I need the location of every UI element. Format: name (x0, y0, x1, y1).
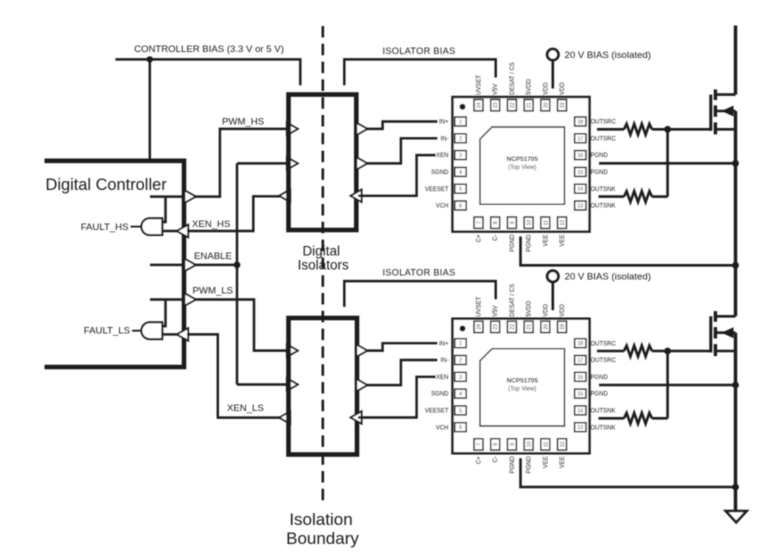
wire XEN_HS (187, 196, 280, 231)
wire fault_ls stub (132, 330, 141, 332)
channel 2 (low side) (344, 268, 739, 491)
svg-text:Isolation: Isolation (289, 510, 352, 529)
wire PWM_HS stub (150, 195, 182, 197)
svg-text:FAULT_HS: FAULT_HS (81, 222, 129, 233)
wire fault_hs stub (131, 226, 142, 228)
svg-text:CONTROLLER BIAS (3.3 V or 5 V): CONTROLLER BIAS (3.3 V or 5 V) (134, 44, 284, 55)
arrow PWM_LS into isolator 2 (287, 344, 298, 356)
arrow XEN_HS into controller (177, 225, 188, 238)
svg-text:ENABLE: ENABLE (194, 251, 232, 262)
wire ENABLE vertical (236, 163, 238, 384)
channel 1 (high side) (344, 46, 739, 269)
digital isolator box 2 (289, 318, 358, 455)
svg-text:PWM_HS: PWM_HS (222, 116, 264, 127)
controller bias line (115, 59, 300, 85)
arrow XEN_LS into controller (177, 328, 188, 341)
junction ENABLE (234, 262, 241, 269)
svg-text:XEN_LS: XEN_LS (227, 403, 264, 414)
arrow PWM_LS out (184, 293, 195, 306)
digital controller box (45, 161, 185, 367)
digital isolator box 1 (289, 95, 357, 231)
wire PWM_LS stub (150, 298, 182, 300)
svg-text:PWM_LS: PWM_LS (193, 286, 234, 297)
arrow XEN_HS out of isolator (279, 190, 290, 202)
arrow XEN_LS out of isolator 2 (279, 411, 290, 423)
wire gate G1 input 1 (162, 198, 165, 222)
gate G2 (FAULT_LS) (141, 322, 162, 339)
wire gate G1 input 2 (162, 230, 177, 232)
arrow PWM_HS into isolator (287, 123, 298, 135)
wire ENABLE stub (150, 264, 182, 266)
rail segment middle (Q1 source to Q2 drain) (734, 111, 737, 316)
wire bias to controller (149, 59, 151, 158)
svg-text:XEN_HS: XEN_HS (192, 219, 230, 230)
gate G1 (FAULT_HS) (141, 218, 162, 235)
wire PWM_HS (195, 129, 288, 197)
svg-text:Digital Controller: Digital Controller (46, 176, 168, 194)
junction controller bias (147, 56, 153, 62)
svg-text:FAULT_LS: FAULT_LS (84, 326, 130, 337)
svg-text:Isolators: Isolators (298, 258, 349, 273)
svg-text:Digital: Digital (302, 244, 340, 259)
wire ENABLE (195, 264, 237, 266)
ground (726, 511, 747, 522)
rail segment bottom (Q2 source to ground) (734, 333, 737, 511)
rail segment top (Q1 drain) (734, 26, 737, 95)
wire gate G2 input 2 (162, 333, 177, 335)
arrow ENABLE out (184, 259, 195, 272)
svg-text:Boundary: Boundary (286, 529, 359, 548)
wire XEN_LS (187, 334, 280, 417)
wire ENABLE to isolator 2 (237, 383, 288, 385)
isolation boundary dashed line (321, 26, 324, 505)
wire PWM_LS (195, 300, 288, 351)
arrow PWM_HS out (184, 190, 195, 203)
arrow ENABLE into isolator 1 (287, 157, 298, 169)
wire gate G2 input 1 (162, 301, 165, 327)
arrow ENABLE into isolator 2 (287, 378, 298, 390)
wire ENABLE to isolator 1 (237, 162, 288, 164)
